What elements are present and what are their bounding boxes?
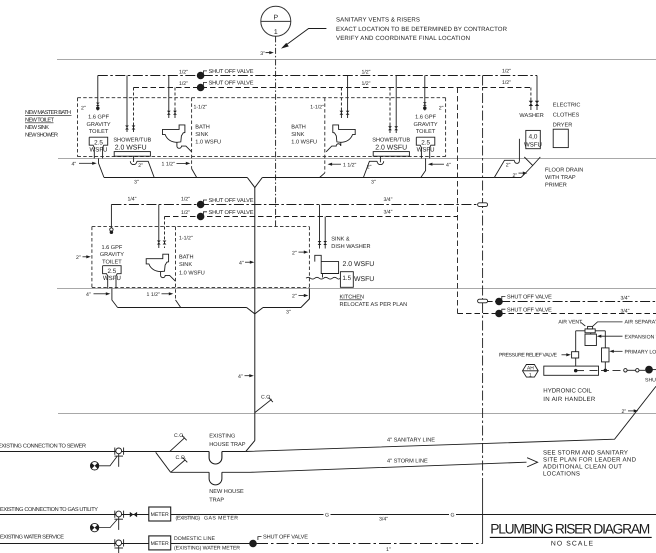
svg-text:SEE STORM AND SANITARY: SEE STORM AND SANITARY [543, 450, 628, 457]
sink 3 symbol [146, 254, 175, 281]
toilet 1 labels [87, 115, 111, 136]
svg-text:1 1/2": 1 1/2" [343, 162, 357, 168]
svg-text:1/2": 1/2" [179, 69, 188, 75]
svg-text:4": 4" [72, 161, 77, 167]
svg-text:P: P [273, 14, 278, 21]
kitchen sink symbol [315, 255, 339, 277]
svg-text:3/4": 3/4" [620, 296, 629, 302]
toilet 3 labels [100, 245, 124, 266]
toilet 2 tank symbol 2.5 WSFU [416, 137, 435, 158]
svg-text:PRIMARY LOOP: PRIMARY LOOP [625, 349, 656, 355]
primary loop tank [602, 348, 610, 362]
svg-text:1.0 WSFU: 1.0 WSFU [179, 271, 205, 277]
domestic line labels [174, 536, 240, 552]
svg-text:IN AIR HANDLER: IN AIR HANDLER [543, 396, 596, 403]
kitchen sink dish washer label [331, 237, 370, 250]
sink 2 symbol mirrored [326, 125, 355, 152]
coil connection line [574, 369, 620, 372]
gas line right [171, 514, 656, 516]
hot water main first floor [458, 313, 656, 315]
grade level line [58, 413, 656, 415]
svg-text:SHOWER/TUB: SHOWER/TUB [113, 137, 151, 144]
hot water riser A drop [457, 88, 459, 314]
water meter box [149, 536, 171, 550]
sink 1 supply valves [167, 109, 177, 118]
svg-text:1.6 GPF: 1.6 GPF [101, 245, 122, 251]
dimension 1-1/2 inch sink2 drain [328, 162, 357, 168]
svg-text:1.0 WSFU: 1.0 WSFU [195, 139, 221, 145]
tub 2 symbol [373, 152, 409, 157]
svg-text:VERIFY AND COORDINATE FINAL LO: VERIFY AND COORDINATE FINAL LOCATION [336, 35, 470, 42]
dishwasher hose squiggle [306, 277, 340, 279]
svg-text:EXPANSION TANK: EXPANSION TANK [625, 334, 656, 340]
svg-text:HOUSE TRAP: HOUSE TRAP [209, 442, 246, 448]
svg-text:4,0: 4,0 [529, 133, 538, 140]
primary loop label [609, 349, 656, 355]
new house trap [209, 472, 222, 485]
svg-text:3/4": 3/4" [383, 197, 392, 203]
shut off valve domestic [250, 535, 309, 547]
dishwasher box 1.5 WSFU [340, 272, 374, 288]
svg-text:2": 2" [367, 164, 372, 170]
gas line G marks [324, 511, 457, 519]
utility marker gas [90, 520, 117, 532]
dimension 2 inch kitchen wall [292, 250, 308, 256]
main drain top floor [104, 177, 247, 179]
pipe size labels first floor [620, 296, 629, 315]
svg-text:GRAVITY: GRAVITY [414, 122, 438, 128]
svg-text:C.O.: C.O. [176, 455, 187, 461]
svg-text:1-1/2": 1-1/2" [310, 105, 324, 111]
third floor line [58, 158, 656, 160]
svg-text:DRYER: DRYER [553, 123, 572, 129]
shut off valve 1f hot [496, 307, 552, 317]
tub 1 trap [130, 156, 154, 177]
svg-text:METER: METER [151, 541, 169, 547]
svg-text:3": 3" [371, 180, 376, 186]
svg-text:SITE PLAN FOR LEADER AND: SITE PLAN FOR LEADER AND [543, 457, 637, 464]
svg-text:DISH WASHER: DISH WASHER [331, 244, 370, 250]
cleanout on sewer [170, 433, 187, 451]
svg-text:3/4": 3/4" [620, 309, 629, 315]
svg-text:G: G [450, 512, 454, 518]
svg-text:ELECTRIC: ELECTRIC [553, 103, 581, 109]
toilet 3 drain drop [112, 288, 118, 307]
toilet 1 supply stop [96, 101, 100, 111]
svg-text:1: 1 [274, 29, 278, 36]
shut off valve top cold [197, 69, 253, 79]
sink 2 labels right group [291, 105, 324, 146]
svg-text:1/2": 1/2" [502, 68, 511, 74]
tub 1 symbol [114, 152, 150, 157]
svg-text:SHUT OFF VALVE: SHUT OFF VALVE [263, 535, 308, 541]
hot water main top floor [134, 87, 531, 89]
stack wye second floor [247, 308, 263, 314]
cold water main second floor [111, 204, 477, 206]
hydronic coil [544, 366, 599, 375]
stack bend to sewer [246, 441, 255, 452]
svg-text:4": 4" [86, 292, 91, 298]
svg-text:SINK: SINK [179, 262, 192, 268]
svg-text:FLOOR DRAIN: FLOOR DRAIN [545, 168, 583, 174]
svg-text:WASHER: WASHER [519, 113, 543, 119]
dimension 2 inch leader pipe [622, 409, 639, 415]
cleanout on stack [255, 395, 273, 413]
dimension 2 inch floor drain [513, 172, 528, 180]
svg-text:EXISTING WATER SERVICE: EXISTING WATER SERVICE [0, 534, 64, 540]
air separator [585, 326, 595, 332]
washer drain stub [494, 177, 521, 179]
floor drain with trap primer label [545, 168, 583, 189]
svg-text:2.5: 2.5 [94, 139, 103, 146]
svg-text:4": 4" [446, 162, 451, 168]
svg-text:WSFU: WSFU [417, 147, 435, 154]
kitchen note [340, 295, 408, 308]
svg-text:1": 1" [386, 547, 391, 553]
storm note arrow [527, 458, 538, 467]
svg-text:SHUT OFF VALVE: SHUT OFF VALVE [507, 307, 552, 313]
svg-text:GRAVITY: GRAVITY [87, 122, 111, 128]
svg-text:4": 4" [239, 260, 244, 266]
svg-text:1.5: 1.5 [342, 275, 351, 282]
water line left [0, 543, 149, 545]
stack wye top floor [247, 178, 262, 188]
tub 2 supply valves [388, 125, 398, 134]
main drain second floor [118, 307, 247, 309]
vent stack riser dashed [275, 36, 277, 226]
svg-text:2": 2" [138, 163, 143, 169]
svg-text:HYDRONIC COIL: HYDRONIC COIL [543, 388, 592, 395]
toilet 2 labels [414, 115, 438, 136]
svg-text:1-1/2": 1-1/2" [179, 236, 193, 242]
dimension 3 inch at stack [260, 51, 274, 57]
dryer symbol [553, 129, 568, 147]
pipe size labels second floor [181, 197, 393, 216]
cleanout on storm [171, 455, 187, 472]
svg-text:EXISTING CONNECTION TO GAS UTI: EXISTING CONNECTION TO GAS UTILITY [0, 507, 98, 513]
svg-text:BATH: BATH [179, 255, 194, 261]
svg-text:NEW SINK: NEW SINK [25, 125, 49, 131]
sewer main line [0, 451, 209, 453]
svg-text:NO SCALE: NO SCALE [551, 541, 594, 548]
utility marker sewer [90, 457, 117, 470]
svg-text:3": 3" [134, 180, 139, 186]
hydronic coil label [543, 388, 596, 403]
svg-text:1 1/2": 1 1/2" [162, 162, 176, 168]
cold water riser B [482, 76, 484, 481]
svg-text:(EXISTING) WATER METER: (EXISTING) WATER METER [174, 546, 240, 552]
svg-text:GAS METER: GAS METER [204, 515, 238, 521]
svg-text:BATH: BATH [291, 124, 306, 130]
sink 2 supply valves [340, 109, 350, 118]
hot water main second floor [165, 216, 458, 218]
svg-text:3/4": 3/4" [379, 517, 388, 523]
air separator label [593, 320, 656, 327]
svg-text:2": 2" [76, 255, 81, 261]
svg-text:3": 3" [286, 310, 291, 316]
svg-text:WSFU: WSFU [90, 147, 108, 154]
svg-text:TOILET: TOILET [416, 129, 436, 135]
svg-text:3": 3" [260, 51, 265, 57]
svg-text:1/2": 1/2" [181, 197, 190, 203]
pressure relief valve [572, 352, 579, 358]
svg-text:1.6 GPF: 1.6 GPF [88, 115, 109, 121]
electric clothes dryer label [553, 103, 581, 129]
tub 1 supply valves [125, 124, 135, 133]
expansion tank [585, 334, 596, 345]
sanitary line diagonal [246, 386, 656, 451]
svg-text:C.O.: C.O. [261, 395, 272, 401]
svg-text:2": 2" [292, 250, 297, 256]
svg-text:3/4": 3/4" [383, 209, 392, 215]
svg-text:2.5: 2.5 [421, 139, 430, 146]
second floor line [57, 288, 656, 290]
svg-text:CLOTHES: CLOTHES [553, 113, 580, 119]
svg-text:NEW HOUSE: NEW HOUSE [209, 489, 244, 495]
svg-text:1/2": 1/2" [361, 81, 370, 87]
svg-text:ADDITIONAL CLEAN OUT: ADDITIONAL CLEAN OUT [543, 464, 622, 471]
storm sanitary note [543, 450, 637, 478]
tub 2 trap [363, 156, 383, 177]
dimension 4 inch toilet3 [86, 292, 110, 298]
toilet 2 drain drop [421, 158, 426, 177]
gas line left [0, 514, 149, 516]
svg-text:EXISTING CONNECTION TO SEWER: EXISTING CONNECTION TO SEWER [0, 443, 86, 449]
dimension 4 inch vent2 [239, 260, 254, 266]
svg-text:SHUT OFF VALVE: SHUT OFF VALVE [209, 69, 254, 75]
svg-text:1/2": 1/2" [502, 80, 511, 86]
leader line to vent note [283, 29, 326, 48]
sink 3 supply valves [157, 205, 167, 249]
svg-text:1 1/2": 1 1/2" [147, 292, 161, 298]
pipe size labels half inch left [179, 68, 511, 86]
svg-text:LOCATIONS: LOCATIONS [543, 471, 580, 478]
title plumbing riser diagram [490, 522, 650, 548]
cold water main top floor [98, 75, 537, 77]
svg-text:SHUT OFF VALVE: SHUT OFF VALVE [209, 210, 254, 216]
svg-text:EXACT LOCATION TO BE DETERMINE: EXACT LOCATION TO BE DETERMINED BY CONTR… [336, 26, 508, 33]
washer supply valves [529, 99, 540, 111]
sink 2 drain below floor [320, 173, 325, 178]
new house trap label [209, 489, 244, 503]
curb valve on water [114, 539, 123, 553]
drawing tag P1 circle [261, 6, 291, 36]
svg-text:WITH TRAP: WITH TRAP [545, 175, 576, 181]
svg-text:4" STORM LINE: 4" STORM LINE [387, 459, 428, 465]
dimension 2 inch kitchen vent [292, 294, 308, 300]
toilet 1 drain drop [99, 158, 105, 177]
storm line diagonal [222, 462, 527, 472]
dashed bathroom walls second floor [92, 227, 310, 300]
dimension 1-1/2 inch sink1 drain [162, 162, 191, 168]
shut off valve 2f cold [197, 198, 253, 208]
svg-text:BATH: BATH [195, 124, 210, 130]
svg-text:2.0 WSFU: 2.0 WSFU [375, 145, 407, 152]
kitchen supply drops [318, 205, 328, 249]
svg-text:RELOCATE AS PER PLAN: RELOCATE AS PER PLAN [340, 302, 408, 308]
svg-text:PRESSURE RELIEF VALVE: PRESSURE RELIEF VALVE [499, 353, 558, 359]
curb valve on gas [114, 511, 123, 530]
svg-text:(EXISTING): (EXISTING) [176, 515, 201, 521]
svg-text:GRAVITY: GRAVITY [100, 252, 124, 258]
air handler tag hexagon [523, 365, 539, 379]
pressure relief valve label [499, 353, 571, 359]
cold supply drops top floor [98, 76, 537, 125]
svg-text:AIR SEPARATOR: AIR SEPARATOR [625, 320, 656, 326]
svg-text:2.0 WSFU: 2.0 WSFU [343, 261, 375, 268]
svg-text:TRAP: TRAP [209, 497, 224, 503]
svg-text:SHUT OFF VALVE: SHUT OFF VALVE [209, 198, 254, 204]
svg-text:NEW SHOWER: NEW SHOWER [25, 133, 58, 139]
sewer line to sanitary [222, 451, 246, 453]
drawing tag P1 text [273, 14, 278, 35]
curb valve on sewer [114, 448, 123, 467]
coupling on riser B second floor [478, 203, 488, 207]
svg-text:1/4": 1/4" [127, 197, 136, 203]
svg-text:PLUMBING RISER DIAGRAM: PLUMBING RISER DIAGRAM [490, 522, 650, 537]
gas cock valve [130, 512, 137, 517]
storm line left [171, 471, 210, 473]
svg-text:EXISTING: EXISTING [209, 434, 235, 440]
svg-text:2.0 WSFU: 2.0 WSFU [115, 145, 147, 152]
svg-text:4": 4" [238, 374, 243, 380]
svg-text:G: G [325, 512, 329, 518]
svg-text:TOILET: TOILET [89, 129, 109, 135]
svg-text:2": 2" [81, 105, 86, 111]
shower tub 2 labels [372, 137, 410, 152]
dimension 2 inch wall vent [76, 255, 91, 261]
svg-text:WSFU: WSFU [524, 142, 542, 149]
cold water main first floor [483, 301, 656, 303]
svg-text:WSFU: WSFU [103, 275, 121, 282]
existing house trap label [209, 434, 246, 448]
svg-text:DOMESTIC LINE: DOMESTIC LINE [174, 536, 216, 542]
room label new master bath [25, 110, 71, 139]
svg-text:2": 2" [292, 294, 297, 300]
svg-text:SINK: SINK [195, 132, 208, 138]
shut off valve 1f cold [496, 295, 552, 305]
toilet 2 supply stop [423, 101, 427, 111]
svg-text:SINK &: SINK & [331, 237, 350, 243]
svg-text:SINK: SINK [291, 132, 304, 138]
svg-text:SHUT OFF VALVE: SHUT OFF VALVE [209, 81, 254, 87]
svg-text:1/2": 1/2" [181, 210, 190, 216]
toilet 3 tank symbol 2.5 WSFU [103, 266, 122, 289]
sink 3 drain below floor [176, 300, 181, 308]
note sanitary vents and risers [336, 16, 508, 42]
main drain second floor right [263, 288, 309, 307]
hot supply drops top floor [134, 88, 531, 125]
main soil stack [254, 187, 256, 440]
washer standpipe and trap [494, 139, 519, 178]
storm connector diagonal [156, 452, 171, 472]
svg-text:1.0 WSFU: 1.0 WSFU [291, 139, 317, 145]
svg-text:2": 2" [439, 105, 444, 111]
dimension 4 inch toilet1 [72, 161, 97, 167]
sink 1 labels [194, 105, 222, 146]
toilet 3 supply drop with ballcock [110, 205, 113, 234]
sink 1 symbol [163, 125, 192, 152]
svg-text:2.5: 2.5 [108, 268, 117, 275]
dashed bathroom walls top floor [78, 98, 446, 173]
main drain top floor right [262, 177, 494, 179]
svg-text:2": 2" [513, 173, 518, 179]
existing gas meter label [176, 515, 239, 521]
dimension 4 inch toilet2 [428, 162, 451, 168]
svg-text:PRIMER: PRIMER [545, 183, 567, 189]
union pair symbols [624, 369, 646, 372]
washer box 4.0 WSFU [524, 130, 542, 148]
svg-text:2": 2" [506, 163, 511, 169]
floor drain funnel [521, 157, 540, 178]
gas meter box [149, 507, 171, 521]
shut off valve 2f hot [197, 210, 253, 220]
toilet 1 tank symbol 2.5 WSFU [89, 137, 108, 158]
svg-text:1/2": 1/2" [179, 81, 188, 87]
svg-text:4" SANITARY LINE: 4" SANITARY LINE [387, 437, 435, 443]
svg-text:1.6 GPF: 1.6 GPF [415, 115, 436, 121]
svg-text:METER: METER [151, 512, 169, 518]
svg-text:1-1/2": 1-1/2" [194, 105, 208, 111]
domestic water line [171, 543, 250, 545]
roof level line [57, 59, 656, 61]
shut off valve top hot [197, 81, 253, 91]
shower tub 1 labels [113, 137, 151, 152]
svg-text:AH: AH [527, 366, 534, 372]
dimension 4 inch stack [238, 374, 254, 380]
svg-text:2": 2" [622, 409, 627, 415]
svg-text:1: 1 [529, 372, 532, 378]
svg-text:C.O.: C.O. [174, 433, 185, 439]
existing house trap [209, 452, 222, 465]
hydronic shut off valve [645, 366, 656, 384]
svg-text:WSFU: WSFU [354, 276, 374, 283]
air vent label [558, 320, 585, 327]
svg-text:TOILET: TOILET [102, 260, 122, 266]
coupling on riser B first floor [478, 299, 488, 303]
svg-text:SANITARY VENTS & RISERS: SANITARY VENTS & RISERS [336, 16, 420, 23]
svg-text:SHUT OFF VALVE: SHUT OFF VALVE [645, 378, 656, 384]
sink 3 labels [179, 236, 205, 277]
hydronic piping verticals [576, 331, 606, 371]
sink 1 drain below floor [192, 169, 197, 178]
svg-text:SHUT OFF VALVE: SHUT OFF VALVE [507, 295, 552, 301]
expansion tank label [597, 334, 656, 340]
dimension 1-1/2 inch sink3 drain [147, 292, 174, 298]
svg-text:1/2": 1/2" [361, 69, 370, 75]
svg-text:AIR VENT: AIR VENT [558, 320, 583, 326]
svg-text:SHOWER/TUB: SHOWER/TUB [372, 137, 410, 144]
